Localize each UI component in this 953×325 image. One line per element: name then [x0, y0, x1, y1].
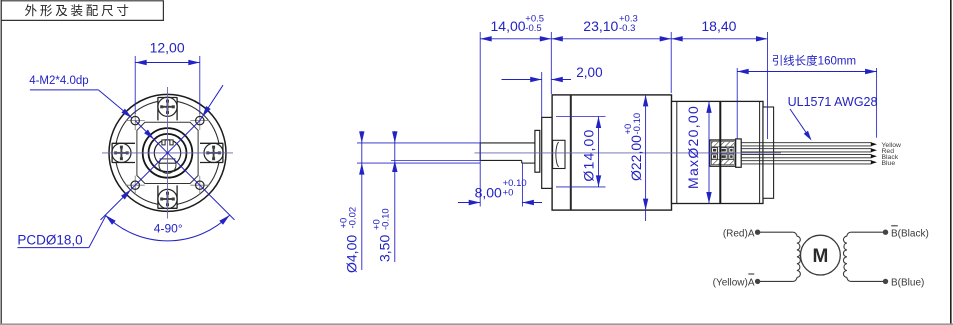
svg-text:PCDØ18,0: PCDØ18,0 [17, 233, 82, 248]
svg-text:Ø22,00: Ø22,00 [628, 135, 644, 181]
svg-text:Ø4,00: Ø4,00 [344, 235, 360, 273]
svg-text:2,00: 2,00 [576, 65, 602, 80]
svg-text:-0.10: -0.10 [381, 208, 392, 230]
svg-text:(Yellow)A: (Yellow)A [713, 278, 755, 289]
svg-text:14,00: 14,00 [491, 18, 526, 34]
svg-text:B(Blue): B(Blue) [891, 278, 924, 289]
svg-text:-0.5: -0.5 [525, 23, 541, 34]
svg-text:外形及装配尺寸: 外形及装配尺寸 [25, 4, 132, 18]
svg-text:23,10: 23,10 [583, 18, 618, 34]
svg-text:MaxØ20,00: MaxØ20,00 [685, 105, 701, 189]
svg-text:Blue: Blue [882, 160, 896, 167]
svg-text:+0: +0 [503, 187, 514, 198]
svg-text:3,50: 3,50 [377, 235, 393, 262]
svg-text:12,00: 12,00 [150, 40, 185, 56]
svg-text:M: M [812, 246, 828, 267]
svg-text:-0.10: -0.10 [632, 113, 643, 135]
svg-text:Ø14,00: Ø14,00 [581, 128, 597, 181]
svg-text:B(Black): B(Black) [891, 228, 929, 239]
svg-text:-0.02: -0.02 [348, 207, 359, 229]
svg-text:引线长度160mm: 引线长度160mm [772, 54, 856, 68]
svg-text:4-M2*4.0dp: 4-M2*4.0dp [29, 75, 88, 87]
svg-text:18,40: 18,40 [701, 18, 736, 34]
svg-text:4-90°: 4-90° [154, 222, 183, 236]
svg-text:8,00: 8,00 [475, 184, 502, 200]
svg-text:-0.3: -0.3 [619, 23, 635, 34]
svg-text:(Red)A: (Red)A [723, 228, 755, 239]
svg-text:UL1571 AWG28: UL1571 AWG28 [788, 95, 878, 109]
